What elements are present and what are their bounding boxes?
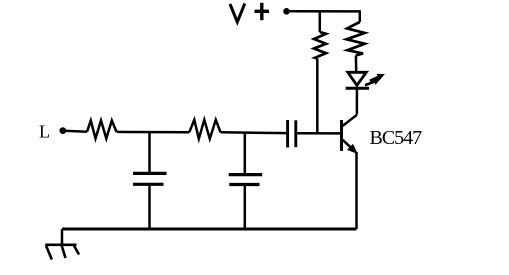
LED light arrow 2 [370,74,385,81]
wire C1 to ground rail [148,186,151,229]
wire C3 to base [297,132,340,135]
ground symbol tick 1 [46,246,52,260]
wire LED cathode to collector [356,88,359,114]
resistor R3 (first horizontal) [87,121,117,139]
wire R2 to LED anode [355,56,358,73]
capacitor C1 top plate [133,172,167,175]
wire branch to R1 top [319,11,322,32]
transistor Q1 collector lead [343,115,357,126]
transistor Q1 emitter lead [343,140,355,151]
wire V+ corner down to R2 [359,11,362,22]
ground symbol bar [45,244,76,247]
capacitor C1 bottom plate [133,183,164,186]
wire R3 to R4 (junction node A) [117,131,190,134]
wire C2 to ground rail [244,186,247,229]
wire node A down to C1 [148,132,151,172]
wire L to R3 [64,131,87,132]
transistor Q1 base bar [340,120,343,151]
LED light arrow 1 [365,78,381,85]
wire ground stem [61,229,64,245]
label V+ [230,3,269,22]
svg-text:BC547: BC547 [370,127,423,149]
node V+ (junction dot) [283,8,290,15]
wire ground rail [62,228,357,231]
capacitor C3 right plate [294,120,297,147]
resistor R2 (right vertical) [347,22,365,56]
resistor R4 (second horizontal) [189,120,220,139]
wire R4 to capacitor C3 (junction node B) [221,131,288,134]
ground symbol tick 3 [74,246,79,255]
wire node B down to C2 [244,133,247,174]
capacitor C3 left plate [286,120,289,148]
ground symbol tick 2 [62,246,66,258]
node L (terminal dot) [59,127,66,134]
wire R1 bottom to base node [316,59,319,135]
wire V+ rail top [288,10,361,13]
capacitor C2 top plate [229,173,263,176]
transistor Q1 emitter arrowhead [347,144,358,154]
wire emitter to ground rail [355,152,358,229]
LED D1 cathode bar [346,87,369,90]
LED D1 triangle [348,72,367,85]
resistor R1 (left vertical) [314,32,326,59]
svg-text:L: L [39,122,50,142]
capacitor C2 bottom plate [229,183,259,186]
